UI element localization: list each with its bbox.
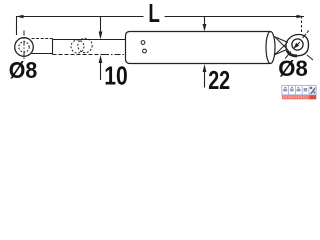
svg-text:L: L (148, 0, 160, 28)
svg-text:Ø8: Ø8 (278, 56, 308, 81)
svg-text:22: 22 (208, 67, 230, 95)
svg-text:Ø8: Ø8 (9, 57, 38, 83)
svg-text:10: 10 (104, 60, 128, 90)
